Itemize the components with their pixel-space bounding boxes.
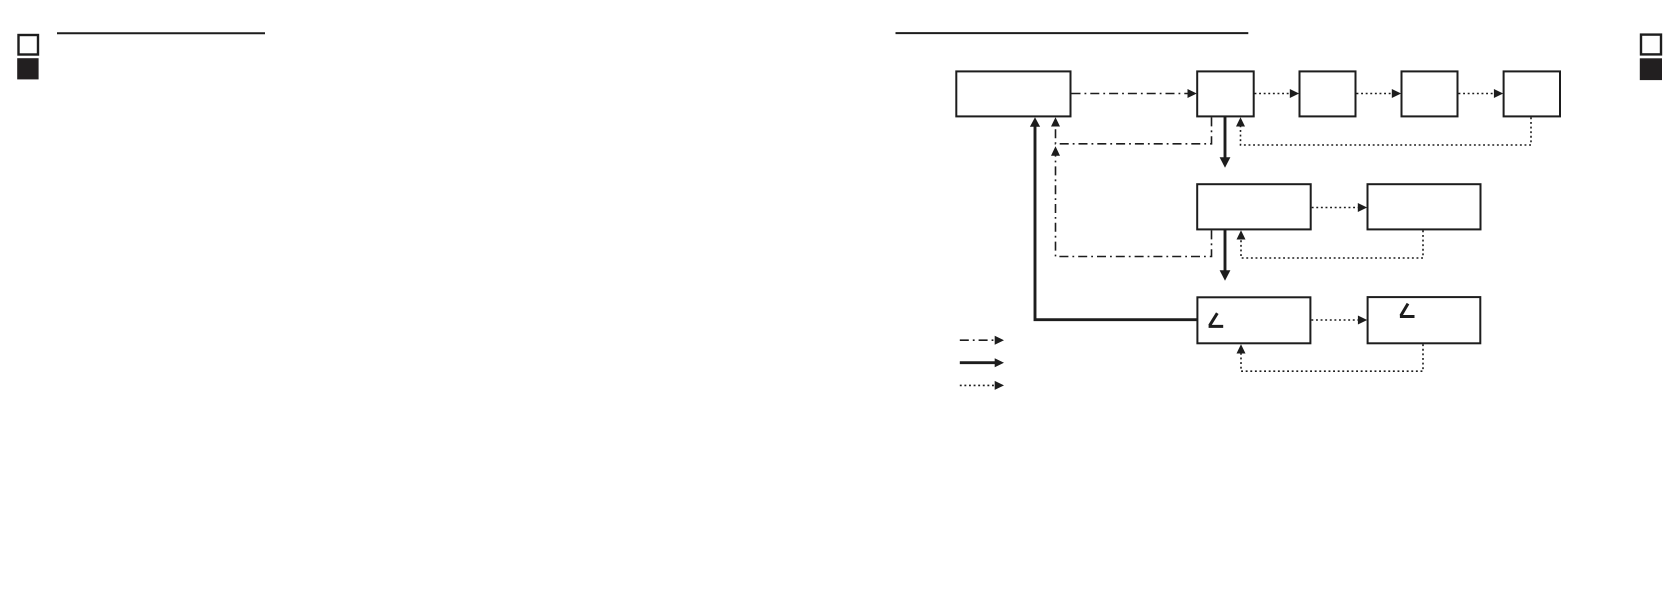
box D1 (row3 left): [1197, 297, 1310, 343]
legend dotted arrow: [960, 384, 996, 386]
dash-dot feedback C1 up to junction: [1056, 156, 1212, 257]
left header rule: [57, 32, 265, 34]
dotted arrow B4 to B5: [1459, 93, 1496, 95]
dash-dot feedback B2 to B1: [1056, 117, 1212, 143]
dotted feedback D2 to D1: [1241, 344, 1423, 371]
box B3 (row1): [1300, 71, 1356, 116]
box B2 (row1): [1197, 71, 1254, 116]
thick solid feedback D1 to B1: [1035, 126, 1197, 320]
box C1 (row2 left): [1197, 184, 1311, 229]
dotted arrow C1 to C2: [1312, 207, 1360, 209]
angle glyph in D1: [1209, 313, 1224, 326]
right header rule: [896, 32, 1249, 34]
dotted arrow B3 to B4: [1357, 93, 1394, 95]
box B5 (row1): [1504, 71, 1560, 116]
box D2 (row3 right): [1368, 297, 1481, 343]
left checkbox black: [17, 58, 38, 79]
thick down arrow B2 to C1: [1224, 117, 1227, 159]
left checkbox white: [19, 35, 39, 55]
legend dash-dot arrow: [960, 339, 996, 341]
dotted feedback C2 to C1: [1241, 230, 1423, 258]
box B1 (row1 large): [956, 71, 1070, 116]
right checkbox black: [1640, 58, 1662, 80]
dotted feedback B5 to B2: [1241, 117, 1532, 145]
angle glyph in D2: [1400, 304, 1415, 317]
dash-dot arrow B1 to B2: [1072, 93, 1189, 95]
right checkbox white: [1641, 35, 1661, 55]
thick down arrow C1 to D1: [1224, 230, 1227, 272]
box B4 (row1): [1402, 71, 1458, 116]
dotted arrow D1 to D2: [1311, 319, 1359, 321]
box C2 (row2 right): [1368, 184, 1481, 229]
legend solid arrow: [960, 361, 996, 364]
dotted arrow B2 to B3: [1255, 93, 1292, 95]
